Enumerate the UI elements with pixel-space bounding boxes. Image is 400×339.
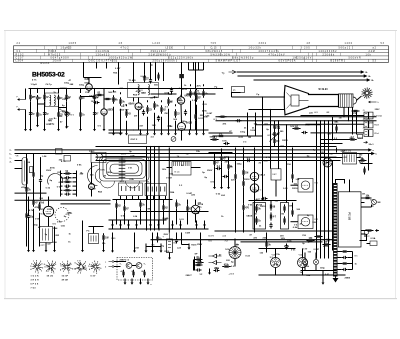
- capacitor C17: [342, 256, 348, 259]
- svg-text:7 G3: 7 G3: [31, 287, 37, 289]
- resistor R66: [219, 116, 227, 118]
- svg-text:0: 0: [99, 264, 100, 266]
- svg-text:1 M 2 5 0 µ 1 6 V: 1 M 2 5 0 µ 1 6 V: [293, 58, 312, 60]
- wire: [159, 196, 161, 200]
- node junction: [286, 124, 287, 125]
- wire: [304, 253, 306, 260]
- svg-text:8: 8: [67, 261, 68, 263]
- fuse F1: [357, 135, 362, 139]
- resistor R40: [270, 202, 276, 210]
- svg-text:R218: R218: [282, 140, 288, 142]
- svg-text:V Def: V Def: [374, 133, 379, 135]
- svg-text:470k: 470k: [177, 97, 183, 100]
- capacitor C18: [342, 268, 348, 271]
- wire: [371, 205, 373, 208]
- svg-text:J1: J1: [363, 110, 365, 112]
- discriminator transformer T2: [271, 169, 281, 180]
- wire CRT grid feed: [249, 109, 286, 111]
- ground GND3: [43, 125, 46, 131]
- wire: [120, 225, 122, 229]
- wire: [249, 200, 297, 202]
- wire: [39, 213, 41, 247]
- resistor R59: [123, 204, 129, 212]
- wire V1 plate: [88, 78, 90, 83]
- tube socket pin diagram 6BE6: [30, 261, 43, 275]
- wire: [196, 105, 198, 130]
- svg-text:250V: 250V: [358, 138, 363, 140]
- tube V15 phase det: [191, 205, 200, 214]
- wire: [133, 98, 135, 102]
- wire yoke lead 2: [306, 123, 365, 125]
- wire: [190, 101, 192, 130]
- svg-text:R218: R218: [257, 204, 263, 206]
- wire: [266, 249, 268, 253]
- wire: [58, 89, 60, 94]
- resistor R34: [242, 203, 249, 212]
- resistor R25: [63, 187, 71, 192]
- wire: [44, 102, 46, 129]
- wire IF ground bus: [109, 129, 209, 131]
- svg-text:16V: 16V: [334, 121, 338, 123]
- oscillator coil L11: [91, 152, 106, 162]
- ground GND18: [174, 129, 177, 135]
- resistor R64: [143, 75, 149, 83]
- resistor R46: [366, 229, 374, 231]
- wire table drop: [155, 63, 157, 82]
- wire: [349, 180, 351, 192]
- wire: [321, 139, 350, 141]
- svg-text:1M: 1M: [103, 175, 106, 177]
- svg-text:6·8k: 6·8k: [77, 165, 82, 167]
- svg-text:3: 3: [93, 271, 94, 273]
- svg-text:82Ω: 82Ω: [62, 177, 66, 180]
- svg-text:1M: 1M: [339, 117, 342, 119]
- wire vertical riser A: [262, 97, 264, 148]
- svg-text:6 8 k 2 W 0·1 5: 6 8 k 2 W 0·1 5: [206, 51, 223, 53]
- resistor R7: [112, 95, 118, 104]
- capacitor C19: [214, 268, 220, 272]
- ground GND38: [131, 279, 134, 285]
- wire: [209, 132, 233, 134]
- wire: [144, 63, 146, 75]
- svg-text:1: 1: [86, 270, 87, 272]
- ground GND11: [119, 129, 122, 135]
- svg-text:7: 7: [47, 261, 48, 263]
- resistor R53: [314, 235, 322, 237]
- wire: [315, 253, 317, 260]
- wire: [365, 206, 372, 208]
- polarity arrow: [364, 141, 368, 143]
- wire riser: [247, 113, 249, 137]
- resistor R35: [234, 172, 236, 181]
- resistor R29: [32, 198, 38, 207]
- wire bundle to bottom: [324, 148, 326, 259]
- svg-text:3 · 2 0·5: 3 · 2 0·5: [301, 48, 311, 50]
- svg-text:DET: DET: [273, 174, 278, 176]
- resistor R1: [29, 93, 35, 102]
- wire horizontal bus H2: [216, 120, 377, 122]
- node junction: [94, 88, 95, 89]
- module outline PC-1: [338, 192, 361, 247]
- wire: [367, 243, 371, 245]
- neon lamp NE1: [372, 200, 377, 205]
- svg-text:2·2 M: 2·2 M: [369, 51, 375, 53]
- wire arrowhead: [364, 74, 368, 77]
- svg-text:82Ω: 82Ω: [85, 82, 89, 85]
- svg-text:0·01: 0·01: [291, 249, 296, 251]
- wire: [126, 196, 128, 200]
- wire: [131, 280, 133, 282]
- wire: [150, 63, 152, 78]
- capacitor C20: [285, 244, 288, 250]
- resistor R78: [36, 110, 42, 118]
- capacitor C6: [157, 116, 160, 122]
- svg-text:R218: R218: [134, 247, 140, 249]
- capacitor C8: [184, 110, 187, 116]
- node junction: [66, 88, 67, 89]
- svg-text:3: 3: [63, 271, 64, 273]
- svg-text:100p: 100p: [237, 164, 243, 166]
- node junction: [120, 129, 121, 130]
- svg-text:0·047: 0·047: [166, 177, 172, 180]
- capacitor C11: [65, 193, 71, 196]
- resistor R42: [291, 172, 293, 180]
- svg-text:VR: VR: [16, 156, 19, 158]
- wire: [30, 89, 32, 94]
- resistor R37: [255, 216, 261, 224]
- wire lower bus left: [15, 199, 111, 201]
- capacitor C9: [65, 176, 71, 179]
- svg-text:0·0 4 7 µ 4 0 0 V: 0·0 4 7 µ 4 0 0 V: [51, 58, 70, 60]
- wire: [147, 117, 149, 130]
- wire: [37, 89, 39, 94]
- wire bus M1: [96, 146, 337, 148]
- wire ladder left rail: [60, 171, 62, 197]
- wire vertical trunk E: [168, 148, 170, 233]
- resistor R43: [291, 208, 293, 216]
- resistor R14: [174, 109, 180, 118]
- wire: [266, 233, 268, 241]
- svg-text:250V: 250V: [46, 170, 52, 172]
- svg-text:250V: 250V: [39, 209, 45, 211]
- svg-text:5 % 3 3 0 k 1 0 %: 5 % 3 3 0 k 1 0 %: [211, 54, 230, 56]
- arrow out: [375, 230, 379, 232]
- resistor R19: [217, 133, 226, 137]
- wire: [154, 113, 156, 130]
- wire: [45, 243, 47, 247]
- wire: [48, 197, 50, 207]
- wire: [348, 251, 353, 253]
- wire: [321, 157, 343, 159]
- transistor Q1: [126, 263, 132, 269]
- capacitor C24: [224, 142, 230, 145]
- bias chain box B: [281, 203, 289, 230]
- wire: [26, 194, 28, 212]
- ground GND14: [146, 129, 149, 135]
- capacitor C2: [57, 95, 63, 101]
- wire mesh: [59, 107, 67, 109]
- svg-text:7 0 5: 7 0 5: [211, 43, 217, 45]
- node junction: [88, 88, 89, 89]
- svg-text:1 0 0 0 p 8 2 0 Ω 1 W: 1 0 0 0 p 8 2 0 Ω 1 W: [109, 57, 133, 60]
- svg-text:W 49-93: W 49-93: [319, 88, 329, 91]
- svg-text:5: 5: [88, 266, 89, 268]
- svg-text:32+1: 32+1: [369, 144, 375, 146]
- wire: [172, 225, 174, 229]
- ground GND10: [112, 129, 115, 135]
- resistor R75: [227, 162, 233, 170]
- wire bus mid1: [131, 211, 209, 213]
- capacitor C4: [94, 101, 100, 104]
- switch bank SW2: [145, 184, 167, 196]
- svg-text:4·5: 4·5: [121, 270, 124, 273]
- wire: [196, 88, 198, 90]
- node junction: [154, 146, 155, 147]
- wire: [361, 163, 373, 165]
- svg-text:6·3 V S P 0·5 A: 6·3 V S P 0·5 A: [279, 60, 296, 63]
- svg-text:6: 6: [31, 264, 32, 266]
- capacitor C26: [223, 175, 229, 178]
- svg-text:5: 5: [74, 268, 75, 270]
- svg-text:2SB-T: 2SB-T: [186, 275, 193, 277]
- svg-text:6·8k: 6·8k: [328, 154, 333, 156]
- resistor R17: [202, 89, 208, 98]
- svg-text:F₂: F₂: [17, 107, 19, 109]
- capacitor C27: [175, 238, 178, 244]
- wire: [291, 221, 299, 223]
- deflection connector J1: [363, 110, 383, 119]
- wire: [195, 121, 197, 130]
- wire: [169, 253, 171, 257]
- node junction: [270, 109, 271, 110]
- svg-text:2: 2: [51, 272, 52, 274]
- svg-text:100p: 100p: [49, 124, 55, 126]
- ground GND16: [160, 129, 163, 135]
- wire block right stub: [361, 197, 365, 199]
- resistor R18: [348, 137, 357, 141]
- svg-text:6·8k: 6·8k: [59, 182, 64, 184]
- ground GND43: [127, 221, 130, 227]
- coil arc 2: [126, 181, 140, 188]
- svg-text:C4 7p: C4 7p: [46, 83, 53, 86]
- ground GND49: [195, 221, 198, 227]
- wire vertical trunk: [146, 147, 148, 231]
- svg-text:R 1 0 2: R 1 0 2: [16, 54, 25, 56]
- svg-text:298 B: 298 B: [345, 278, 351, 280]
- resistor R30: [38, 202, 40, 211]
- resistor R80: [79, 110, 85, 118]
- wire: [361, 233, 365, 235]
- svg-text:SP: SP: [195, 254, 199, 256]
- svg-text:6: 6: [89, 264, 90, 266]
- svg-text:2: 2: [96, 273, 97, 275]
- ground GND34: [145, 247, 148, 253]
- resistor R33: [242, 179, 244, 188]
- ground GND19: [188, 129, 191, 135]
- svg-text:2·2M: 2·2M: [275, 128, 280, 130]
- svg-text:1: 1: [99, 270, 100, 272]
- resistor R2: [43, 93, 49, 102]
- ground GND2: [36, 121, 39, 127]
- resistor R81: [195, 256, 203, 261]
- wire: [84, 77, 90, 79]
- svg-text:4·7k: 4·7k: [29, 209, 34, 212]
- ground GND26: [81, 246, 84, 252]
- ground GND42: [119, 221, 122, 227]
- wire vertical trunk: [158, 147, 160, 231]
- svg-text:C107: C107: [138, 126, 144, 128]
- fuse F1: [370, 241, 377, 246]
- svg-text:9: 9: [97, 262, 98, 264]
- svg-text:100p: 100p: [64, 82, 70, 84]
- node junction: [146, 146, 147, 147]
- wire: [126, 104, 128, 106]
- node junction: [182, 129, 183, 130]
- wire: [58, 101, 60, 129]
- wire: [234, 259, 236, 267]
- wire mesh: [81, 96, 95, 98]
- ground GND15: [153, 129, 156, 135]
- ground GND24: [45, 246, 48, 252]
- svg-text:0·047: 0·047: [123, 109, 129, 112]
- svg-text:470k: 470k: [35, 206, 41, 209]
- deflection connector J2: [363, 119, 380, 128]
- ground GND21: [202, 129, 205, 135]
- volume control VR1: [16, 156, 28, 186]
- resistor R20: [273, 123, 280, 131]
- svg-text:0·22: 0·22: [245, 256, 250, 258]
- wire: [232, 93, 241, 98]
- ground GND31: [111, 247, 114, 253]
- resistor R65: [157, 73, 159, 81]
- ground GND13: [139, 129, 142, 135]
- resistor R6: [104, 98, 112, 100]
- node junction: [80, 96, 81, 97]
- tube socket pin diagram 6AV6: [60, 261, 73, 274]
- socket pin tables: [31, 275, 96, 289]
- wire: [221, 149, 223, 155]
- tube V8 sync sep: [250, 182, 258, 194]
- wire: [15, 168, 23, 170]
- ground GND45: [149, 221, 152, 227]
- wire: [37, 101, 39, 125]
- svg-text:1/2W: 1/2W: [250, 130, 256, 132]
- wire: [28, 197, 30, 214]
- indicator lamp NE2: [364, 230, 369, 235]
- svg-text:1 G 2 K: 1 G 2 K: [31, 275, 40, 277]
- wire: [165, 196, 167, 200]
- capacitor C21: [149, 78, 152, 84]
- wire: [120, 92, 122, 94]
- wire trunk V8: [254, 148, 256, 233]
- svg-text:1M: 1M: [186, 154, 189, 156]
- svg-text:1/2W: 1/2W: [54, 235, 59, 237]
- wire: [332, 117, 334, 141]
- wire input riser: [25, 89, 27, 100]
- resistor R50: [195, 259, 203, 264]
- svg-text:2·2M: 2·2M: [284, 246, 289, 248]
- capacitor C1: [36, 95, 42, 101]
- svg-text:1M: 1M: [248, 137, 251, 139]
- wire strip stub: [338, 257, 342, 259]
- wire: [89, 77, 102, 79]
- node junction: [126, 129, 127, 130]
- wire main B+ bus left: [29, 88, 223, 90]
- wire: [33, 209, 35, 247]
- svg-text:C107: C107: [121, 161, 127, 163]
- resistor R70: [363, 167, 365, 175]
- svg-text:0: 0: [41, 264, 42, 266]
- wire: [187, 93, 216, 95]
- node junction: [275, 274, 276, 275]
- ground GND37: [124, 279, 127, 285]
- wire: [292, 181, 294, 183]
- svg-text:0: 0: [71, 264, 72, 266]
- wire: [315, 265, 317, 271]
- svg-text:1 0 m H: 1 0 m H: [53, 61, 62, 63]
- wire vertical riser D: [286, 125, 288, 148]
- wire: [243, 148, 245, 169]
- wire pot chain: [274, 121, 276, 147]
- wire horizontal bus H1: [216, 116, 377, 118]
- wire: [40, 184, 42, 201]
- ground GND9: [103, 125, 106, 131]
- svg-text:R218: R218: [68, 178, 74, 180]
- wire: [33, 179, 35, 201]
- wire: [182, 245, 190, 247]
- resistor R55: [122, 270, 124, 278]
- input terminal TB-b: [105, 266, 114, 269]
- wire: [96, 63, 98, 69]
- tube socket V14: [298, 255, 308, 268]
- svg-text:16V: 16V: [225, 249, 229, 251]
- wire: [221, 163, 223, 187]
- svg-text:6: 6: [75, 263, 76, 265]
- node junction: [133, 129, 134, 130]
- wire: [120, 196, 122, 200]
- wire: [124, 213, 126, 225]
- IF can arc B: [95, 169, 100, 183]
- svg-text:AVC: AVC: [197, 85, 202, 88]
- resistor R73: [213, 158, 219, 166]
- tube shield dashed V7: [55, 208, 69, 222]
- svg-text:B₂: B₂: [369, 76, 372, 78]
- wire: [26, 154, 28, 188]
- trimmer capacitor CT1: [65, 112, 69, 116]
- wire table drop: [163, 63, 165, 82]
- resistor R48: [341, 262, 349, 264]
- ground GND6: [79, 125, 82, 131]
- capacitor C29: [43, 111, 49, 117]
- svg-text:250V: 250V: [163, 234, 168, 236]
- wire: [195, 200, 197, 206]
- resistor R24: [63, 179, 71, 183]
- wire arrowhead M2: [368, 148, 372, 151]
- wire arrowhead: [361, 70, 365, 73]
- svg-text:250V: 250V: [207, 170, 213, 172]
- wire CRT base drop 1: [343, 108, 345, 117]
- svg-text:470k: 470k: [275, 253, 281, 256]
- node junction: [37, 88, 38, 89]
- bias chain box A: [253, 203, 266, 230]
- wire deflection bundle: [328, 121, 330, 148]
- wire vertical riser B: [270, 110, 272, 148]
- main chassis bus: [151, 239, 337, 241]
- wire: [120, 109, 122, 130]
- wire vertical trunk: [154, 147, 156, 231]
- wire CRT video feed: [232, 96, 286, 98]
- svg-text:10%: 10%: [287, 240, 291, 242]
